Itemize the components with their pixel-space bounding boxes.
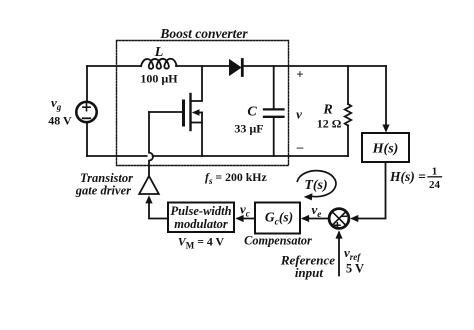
- svg-text:100 µH: 100 µH: [140, 72, 178, 86]
- MOSFET body arrow lead: [197, 112, 202, 114]
- svg-text:+: +: [296, 67, 303, 82]
- svg-text:fs = 200 kHz: fs = 200 kHz: [205, 170, 267, 186]
- reference input arrow: [338, 233, 340, 276]
- summer X diagonal 2: [332, 212, 345, 225]
- capacitor bottom lead: [273, 118, 275, 156]
- arrowhead into Gc: [301, 215, 309, 222]
- summer plus sign: [335, 223, 340, 228]
- wire left vertical upper: [86, 66, 88, 101]
- block H(s): [362, 133, 409, 162]
- source vg circle: [76, 102, 96, 122]
- diode D1: [230, 60, 241, 75]
- MOSFET body arrowhead: [192, 109, 200, 116]
- svg-text:Boost converter: Boost converter: [159, 26, 248, 41]
- bottom wire left of hop: [87, 155, 147, 157]
- wire summer to Gc: [303, 218, 328, 220]
- wire PWM to driver: [149, 200, 168, 219]
- arrowhead into summer from below: [335, 231, 342, 239]
- diode cathode bar: [241, 60, 244, 76]
- svg-text:1: 1: [432, 166, 438, 178]
- wire top left (source to inductor): [87, 65, 141, 67]
- summer minus sign: [342, 215, 346, 217]
- MOSFET source lead: [191, 122, 202, 124]
- T(s) loop arrow: [297, 171, 336, 197]
- svg-text:C: C: [247, 105, 257, 120]
- T(s) arrowhead: [304, 193, 313, 200]
- MOSFET gate bar: [182, 101, 185, 125]
- svg-text:12 Ω: 12 Ω: [317, 117, 342, 131]
- wire top mid (inductor to diode): [176, 65, 229, 67]
- capacitor C1 top lead: [273, 66, 275, 108]
- svg-text:R: R: [322, 103, 332, 118]
- svg-text:H(s): H(s): [372, 142, 399, 157]
- svg-text:VM = 4 V: VM = 4 V: [178, 235, 225, 251]
- svg-text:modulator: modulator: [174, 217, 228, 231]
- arrowhead into driver: [145, 195, 152, 203]
- svg-text:v: v: [296, 107, 302, 122]
- capacitor plate top: [264, 108, 284, 110]
- MOSFET gate lead: [149, 111, 182, 113]
- svg-text:T(s): T(s): [304, 178, 327, 193]
- resistor R1 zigzag: [345, 104, 351, 126]
- driver output wire with hop: [149, 112, 153, 176]
- svg-text:input: input: [295, 265, 324, 280]
- block Gc(s): [255, 203, 300, 234]
- wire H(s) down to feedback: [353, 162, 386, 219]
- wire left vertical lower: [86, 123, 88, 156]
- svg-text:33 µF: 33 µF: [234, 122, 263, 136]
- bottom wire right of hop: [153, 155, 348, 157]
- wire top right (diode to corner): [244, 65, 387, 67]
- wire Gc to PWM: [238, 218, 256, 220]
- inductor L1: [141, 59, 176, 69]
- svg-text:Pulse-width: Pulse-width: [170, 204, 231, 218]
- arrowhead into H(s): [382, 125, 389, 133]
- resistor R1 bottom lead: [347, 126, 349, 157]
- arrowhead into summer from right: [350, 215, 358, 222]
- svg-text:H(s) =: H(s) =: [389, 169, 426, 184]
- source minus: [83, 117, 91, 119]
- boost converter dashed box: [117, 41, 289, 166]
- svg-text:gate driver: gate driver: [75, 184, 131, 198]
- svg-text:5 V: 5 V: [346, 262, 364, 276]
- svg-text:24: 24: [429, 179, 441, 191]
- capacitor plate bottom: [264, 116, 284, 118]
- summing junction circle: [329, 209, 349, 229]
- summer X diagonal 1: [332, 212, 345, 225]
- resistor R1 top lead: [347, 66, 349, 104]
- MOSFET source vertical: [201, 113, 203, 157]
- wire to H(s) vertical: [385, 66, 387, 126]
- MOSFET channel bar: [189, 94, 191, 130]
- source plus: [83, 104, 90, 111]
- svg-text:–: –: [296, 139, 304, 154]
- MOSFET Q1 drain lead: [192, 66, 203, 101]
- arrowhead into PWM: [236, 215, 244, 222]
- block pulse-width modulator: [168, 203, 234, 233]
- svg-text:L: L: [154, 45, 164, 60]
- transistor gate driver triangle: [139, 176, 159, 194]
- svg-text:Compensator: Compensator: [244, 234, 312, 248]
- svg-text:48 V: 48 V: [48, 114, 72, 128]
